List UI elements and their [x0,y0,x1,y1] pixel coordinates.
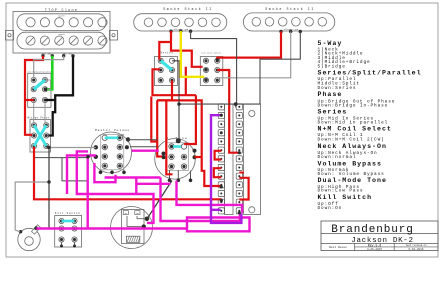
wire magenta M.Tone leg to superswitch [177,181,243,213]
wire red N+M switch to superswitch [217,70,238,153]
svg-text:Volume Bypass: Volume Bypass [318,160,382,167]
wire jumper on Ser/Split/Parallel switch [45,80,51,89]
wire red superswitch jumper right [239,178,248,200]
potentiometer Master Volume (push-pull) [91,128,132,174]
svg-text:North: North [58,15,65,18]
wire bare pot to pot link [130,146,157,148]
svg-text:Down:Series: Down:Series [318,86,357,91]
svg-text:Series: Series [160,51,173,54]
svg-text:Phase: Phase [318,91,343,98]
svg-text:South: South [58,33,65,36]
svg-text:Down: Volume Bypass: Down: Volume Bypass [318,172,385,177]
svg-text:Bridge Phase: Bridge Phase [28,116,50,119]
svg-text:Brandenburg: Brandenburg [331,224,414,236]
svg-text:Neck Always-On: Neck Always-On [318,143,387,150]
wire red stub to Ser/Split/Parallel BL lug [25,99,34,101]
svg-text:Down:normal: Down:normal [318,155,357,160]
switch Kill Switch [55,212,82,247]
wire red to M.Tone pot upper lug [184,95,196,144]
wire red superswitch jumper left upper [215,151,222,160]
wire bare Bridge Phase to Kill Switch [46,147,59,229]
potentiometer Dual-Mode Tone with capacitors [111,207,153,249]
wire green humbucker to Ser/Split/Parallel switch [47,56,53,90]
wire red Series switch lower run to pots and superswitch [157,81,172,157]
output jack [18,225,41,251]
wire magenta link down from volume legs [135,177,137,194]
wire bare bridge pickup ground run [236,32,300,105]
5-way superswitch [218,104,260,215]
wire black stub to Ser/Split/Parallel BR lug [45,99,55,101]
wire bare bus to M.Tone drop [179,103,236,105]
wire bare M.Tone pot to tone cap [147,181,172,219]
wire red parallel link Series switch loop [153,67,196,95]
wire magenta volume lug second run [67,155,88,194]
wire yellow middle pickup to N+M switch [181,31,205,77]
wire bare ground to jack sleeve [15,182,49,232]
svg-text:N+M Coil Select: N+M Coil Select [318,125,392,132]
svg-text:Master Volume: Master Volume [95,128,130,132]
wire bare loop left of Master Volume [62,158,88,181]
wire purple superswitch common run [211,115,241,223]
svg-text:Neil Recon: Neil Recon [329,245,347,249]
wire red bridge pickup to N+M switch [217,32,281,60]
wire bare into loop [35,157,62,159]
capacitor (tone cap) [126,236,140,242]
svg-text:Jackson DK-2: Jackson DK-2 [351,237,413,245]
svg-text:Kill Switch: Kill Switch [55,212,81,215]
svg-text:Series: Series [318,109,348,116]
wire red middle pickup to N+M switch [171,31,203,67]
wire magenta Master Volume loop to tone pot [77,151,154,223]
wire red stub superswitch right row8 [239,172,244,174]
svg-text:DM: DM [136,213,138,215]
wire magenta volume legs run [105,176,161,178]
wire magenta loop under Master Volume [94,163,115,182]
svg-text:PH: PH [125,213,127,215]
wire magenta Master Volume lug to jack run [88,155,96,228]
svg-text:Smoke Stack II: Smoke Stack II [265,7,315,12]
wire magenta branch to M.Tone leg [136,183,170,185]
wire red jumper at M.Tone leg [166,100,172,174]
svg-text:Smoke Stack II: Smoke Stack II [163,7,213,12]
wire links Ser/Split/Parallel to Bridge Phase [33,103,35,124]
wire black humbucker to Bridge Phase switch [48,56,73,136]
svg-text:Ser/Split/Parallel: Ser/Split/Parallel [27,70,53,73]
wire bare casing link [128,139,158,141]
svg-text:Down:On: Down:On [318,206,343,211]
svg-text:M+M Coil Select: M+M Coil Select [201,51,221,54]
wire magenta jack tip to superswitch output [36,218,249,232]
svg-text:TTOP Clone: TTOP Clone [45,8,78,13]
wire red superswitch jumper left lower [214,168,222,177]
svg-text:last revised on: last revised on [406,244,427,247]
wire magenta tone run to superswitch [161,178,240,222]
title block [321,221,438,251]
legend text [318,40,422,211]
svg-text:Rev.5.0: Rev.5.0 [368,243,381,247]
svg-text:Down:Low Pass: Down:Low Pass [318,189,364,194]
pickup Smoke Stack II (middle) [134,7,227,33]
junction dots [44,58,241,214]
pickup Smoke Stack II (bridge) [243,7,334,33]
svg-text:Kill Switch: Kill Switch [318,194,373,201]
wire white humbucker to Ser/Split/Parallel switch [34,56,64,78]
switch N+M Coil Select [200,51,223,85]
wire bare middle pickup ground run [191,31,237,104]
svg-text:5-Way: 5-Way [318,40,343,47]
potentiometer M. Tone (push-pull) [155,136,197,182]
wire white bridge pickup to N+M switch [218,32,291,78]
wire red humbucker hot to Bridge Phase switch [25,56,43,135]
wire bare Series switch to M.Tone pot top [172,61,179,141]
svg-text:3-26-2015: 3-26-2015 [367,248,382,251]
wire red lower-left vertical to M.Tone [151,97,156,142]
svg-text:Series/Split/Parallel: Series/Split/Parallel [318,69,422,76]
wire red Bridge Phase to superswitch bottom lug [34,147,222,199]
wire purple stub to superswitch lower lug [211,209,221,211]
wire bare stub to superswitch top lug [235,104,238,107]
svg-text:6-19-2016: 6-19-2016 [408,248,423,251]
svg-text:Dual-Mode Tone: Dual-Mode Tone [318,177,387,184]
wire red middle pickup branch to Series switch [159,42,171,60]
pickup TTOP Clone (neck humbucker) [6,8,118,58]
switch Bridge Phase [28,116,51,152]
switch Ser/Split/Parallel [25,70,55,107]
svg-text:Down:N+M Coil 2(CW): Down:N+M Coil 2(CW) [318,137,385,142]
wire magenta pot to pot link [132,149,159,151]
switch Series (middle pickup) [155,51,178,85]
wire bare to Master Volume left lug [49,147,96,149]
